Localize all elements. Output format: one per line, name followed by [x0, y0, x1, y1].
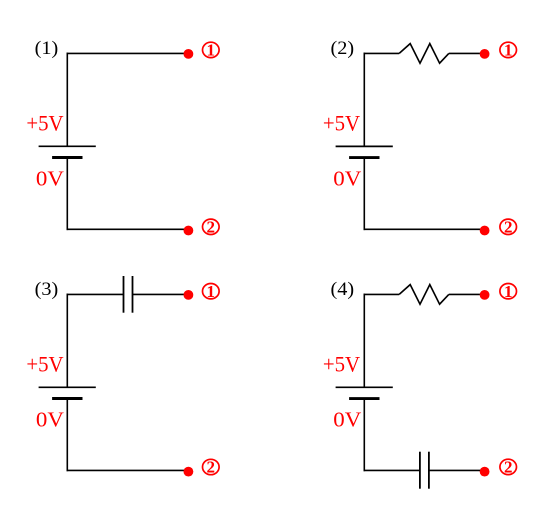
svg-text:0V: 0V: [36, 167, 64, 191]
battery +5V cell: short negative plate: [52, 156, 82, 159]
battery +5V cell: short negative plate: [52, 397, 82, 400]
circuit label (2): [331, 39, 355, 59]
terminal node dot 1: [184, 290, 194, 300]
label +5V: [323, 110, 360, 135]
svg-text:1: 1: [504, 41, 513, 60]
resistor: [399, 285, 449, 305]
battery +5V cell: long positive plate: [39, 386, 96, 388]
svg-text:2: 2: [207, 217, 216, 236]
wire vertical upper: [363, 53, 365, 147]
label +5V: [26, 110, 63, 135]
wire top-left segment: [364, 52, 400, 54]
label +5V: [26, 351, 63, 376]
circuit label (1): [35, 39, 59, 59]
terminal label circled 2: [500, 458, 517, 477]
battery +5V cell: long positive plate: [336, 145, 393, 147]
wire top-left segment: [67, 293, 124, 295]
wire top-left segment: [364, 293, 400, 295]
wire vertical lower: [363, 158, 365, 231]
terminal label circled 1: [203, 282, 220, 301]
wire vertical lower: [363, 399, 365, 472]
label 0V: [333, 408, 361, 432]
label 0V: [333, 167, 361, 191]
battery +5V cell: long positive plate: [336, 386, 393, 388]
wire vertical lower: [66, 399, 68, 472]
circuit label (3): [35, 280, 59, 300]
terminal node dot 1: [184, 49, 194, 59]
svg-text:0V: 0V: [333, 408, 361, 432]
svg-text:0V: 0V: [333, 167, 361, 191]
terminal node dot 2: [480, 467, 490, 477]
terminal node dot 1: [480, 49, 490, 59]
terminal node dot 2: [480, 226, 490, 236]
wire top: [67, 52, 189, 54]
svg-text:(2): (2): [331, 39, 355, 59]
terminal label circled 1: [203, 41, 220, 60]
battery +5V cell: long positive plate: [39, 145, 96, 147]
wire vertical lower: [66, 158, 68, 231]
wire vertical upper: [66, 53, 68, 147]
wire top-right segment: [449, 52, 485, 54]
svg-text:1: 1: [207, 282, 216, 301]
svg-text:(3): (3): [35, 280, 59, 300]
svg-text:2: 2: [504, 458, 513, 477]
circuit label (4): [331, 280, 355, 300]
terminal node dot 2: [184, 226, 194, 236]
terminal label circled 2: [203, 458, 220, 477]
wire bottom-left segment: [364, 469, 420, 471]
battery +5V cell: short negative plate: [349, 397, 379, 400]
wire vertical upper: [66, 294, 68, 388]
terminal label circled 1: [500, 41, 517, 60]
wire vertical upper: [363, 294, 365, 388]
svg-text:0V: 0V: [36, 408, 64, 432]
svg-text:(1): (1): [35, 39, 59, 59]
resistor: [399, 44, 449, 64]
terminal node dot 2: [184, 467, 194, 477]
capacitor: [420, 452, 429, 489]
wire top-right segment: [133, 293, 189, 295]
battery +5V cell: short negative plate: [349, 156, 379, 159]
svg-text:+5V: +5V: [26, 351, 63, 376]
svg-text:2: 2: [207, 458, 216, 477]
terminal label circled 2: [500, 217, 517, 236]
terminal label circled 1: [500, 282, 517, 301]
label 0V: [36, 167, 64, 191]
terminal node dot 1: [480, 290, 490, 300]
wire top-right segment: [449, 293, 485, 295]
svg-text:+5V: +5V: [26, 110, 63, 135]
wire bottom: [364, 228, 485, 230]
svg-text:1: 1: [504, 282, 513, 301]
wire bottom: [67, 228, 189, 230]
wire bottom: [67, 469, 189, 471]
svg-text:1: 1: [207, 41, 216, 60]
svg-text:+5V: +5V: [323, 351, 360, 376]
wire bottom-right segment: [429, 469, 485, 471]
svg-text:(4): (4): [331, 280, 355, 300]
svg-text:2: 2: [504, 217, 513, 236]
terminal label circled 2: [203, 217, 220, 236]
svg-text:+5V: +5V: [323, 110, 360, 135]
capacitor: [124, 276, 133, 313]
label +5V: [323, 351, 360, 376]
label 0V: [36, 408, 64, 432]
